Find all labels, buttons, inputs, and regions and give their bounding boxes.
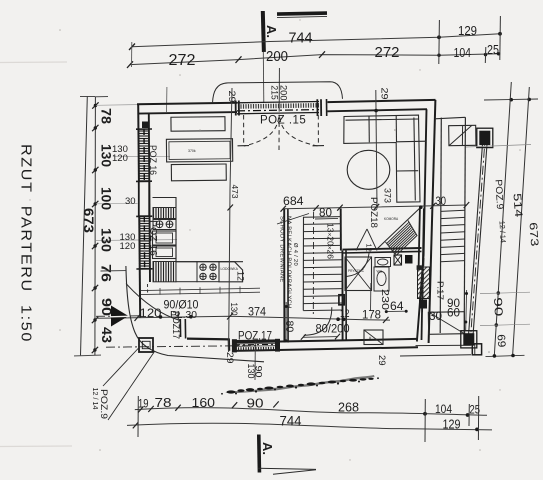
svg-text:69: 69 xyxy=(495,334,508,348)
bottom window POZ17 inner thin lines xyxy=(236,342,276,345)
svg-text:76: 76 xyxy=(99,264,114,283)
right wall outer line xyxy=(429,100,436,343)
svg-text:POZ.17: POZ.17 xyxy=(238,331,272,343)
ext stair top box divider xyxy=(461,125,463,145)
svg-text:272: 272 xyxy=(375,45,400,61)
left chain guide line to wall at y204 xyxy=(96,203,138,205)
svg-text:25: 25 xyxy=(487,42,499,57)
svg-text:90: 90 xyxy=(247,396,264,411)
bathroom top wall line a xyxy=(342,248,421,250)
chimney inner rect xyxy=(142,341,150,348)
svg-text:A.: A. xyxy=(264,25,279,38)
svg-text:POZ 16: POZ 16 xyxy=(148,145,158,175)
POZ9 top end box xyxy=(477,128,493,147)
POZ15 foot dash left xyxy=(238,145,250,147)
kitchen ribbed unit B xyxy=(153,262,176,282)
svg-text:NA BELKACH POLOKRAGLYCH: NA BELKACH POLOKRAGLYCH xyxy=(286,216,292,309)
POZ15 right post xyxy=(316,99,318,116)
left wall pier between windows xyxy=(139,181,149,216)
washing machine xyxy=(364,330,383,345)
bathroom door arc xyxy=(347,253,370,277)
interior dim line L0 lower xyxy=(141,292,260,294)
bottom window POZ17 left post xyxy=(232,339,237,352)
svg-text:744: 744 xyxy=(280,413,302,428)
svg-text:80: 80 xyxy=(319,208,332,220)
interior dim line 684 xyxy=(283,205,466,209)
bottom window POZ17 right post xyxy=(275,339,280,352)
top dimension row1 line (744|129) xyxy=(132,34,500,47)
flue square hatched xyxy=(394,255,402,265)
POZ9 beam dashdot center xyxy=(471,132,486,338)
bathroom top wall line b xyxy=(342,251,421,253)
svg-text:30: 30 xyxy=(429,311,442,323)
svg-text:160: 160 xyxy=(192,395,216,410)
left dim chain inner line xyxy=(94,97,97,356)
left chain guide line to wall at y170 xyxy=(113,155,170,157)
winder stairs hatch xyxy=(387,222,416,254)
left chain dots xyxy=(94,104,97,107)
right wall window dim vertical xyxy=(465,290,468,330)
stringer end box bottom xyxy=(472,344,481,355)
POZ9 top end box fill xyxy=(479,131,490,145)
svg-text:178: 178 xyxy=(362,307,381,321)
right dim line 514 xyxy=(494,82,511,356)
porch edge lines bottom right xyxy=(416,344,471,346)
svg-text:272: 272 xyxy=(169,52,196,69)
top guide vertical at x131.5 xyxy=(131,42,133,67)
top wall left outer line xyxy=(137,103,237,105)
right chains top guide line xyxy=(484,99,538,100)
left wall inner line xyxy=(149,113,150,282)
svg-text:473: 473 xyxy=(230,185,240,199)
bathroom vertical dim 230 xyxy=(370,283,372,311)
svg-text:104: 104 xyxy=(454,45,472,60)
svg-text:744: 744 xyxy=(289,30,313,47)
svg-text:120: 120 xyxy=(112,153,128,164)
top dimension row2 line (272|200|272|104|25) xyxy=(130,54,499,65)
svg-text:215: 215 xyxy=(269,85,280,99)
svg-text:90: 90 xyxy=(491,297,504,317)
section marker A top: thick vertical bar xyxy=(261,11,266,52)
row1 dot at 439 xyxy=(437,35,441,39)
left chain slash ticks xyxy=(92,102,98,108)
chimney dashdot axis horizontal xyxy=(106,346,256,348)
row1 left end tick xyxy=(129,44,135,51)
svg-text:673: 673 xyxy=(527,222,541,247)
kitchen 2-burner xyxy=(153,220,176,230)
left wall window2 hatch xyxy=(139,216,150,269)
interior dim line L0 (90/O10) upper xyxy=(141,288,260,290)
small dark rect near wall xyxy=(417,265,422,270)
right guide line y325 xyxy=(480,324,530,325)
svg-text:POZ .15: POZ .15 xyxy=(260,115,306,127)
sub dim line under 80 xyxy=(315,217,338,220)
kitchen counter outline xyxy=(153,198,244,262)
right guide line y293 xyxy=(480,292,530,293)
left chain top caps xyxy=(95,96,108,98)
section marker A bottom: thick vertical bar xyxy=(257,434,261,472)
stair enclosure left wall line a xyxy=(283,209,285,343)
window sill ticks window1 xyxy=(136,128,152,130)
porch door swing arc xyxy=(126,284,180,321)
svg-text:WC: WC xyxy=(377,270,383,274)
WC bowl xyxy=(374,267,389,291)
porch door leaf double line xyxy=(179,319,181,337)
paper fold line top-left xyxy=(0,61,67,64)
stairs top diagonal leader xyxy=(277,214,309,225)
ext stair stringer left xyxy=(440,118,441,333)
dark block under pier xyxy=(419,300,427,309)
L0 small ticks xyxy=(160,286,240,294)
ext stair top platform lines xyxy=(435,117,466,119)
svg-text:130: 130 xyxy=(228,303,239,316)
top wall right inner line xyxy=(328,109,428,111)
flue square solid black xyxy=(405,255,413,264)
POZ9 beam line b xyxy=(473,132,488,339)
svg-text:19: 19 xyxy=(138,399,149,411)
svg-text:80/200: 80/200 xyxy=(316,322,350,336)
winder stairs boundary diagonal xyxy=(378,207,422,249)
svg-text:12: 12 xyxy=(236,271,246,281)
right chains bottom cap xyxy=(486,355,525,356)
left dim chain outer line (673) xyxy=(81,97,88,356)
ext stair bottom landing diagonal xyxy=(429,312,465,334)
row2 dot at 498.5 xyxy=(497,52,500,55)
POZ15 left post xyxy=(235,101,237,116)
svg-text:514: 514 xyxy=(511,193,525,218)
interior dim line L1 long xyxy=(96,316,390,320)
bathroom left wall line a xyxy=(341,251,343,342)
left wall outer line xyxy=(138,104,140,318)
leader lines to POZ.9 label xyxy=(103,347,155,421)
top guide vertical at x485.5 xyxy=(484,47,487,63)
L1 dot at 191 xyxy=(189,315,193,319)
kitchen ribbed unit A xyxy=(153,208,176,219)
top wall right outer line xyxy=(328,100,436,102)
entrance arrow dashdot xyxy=(96,315,142,318)
ext stair top box diagonal xyxy=(450,126,472,146)
POZ15 center vertical line xyxy=(278,68,280,107)
svg-text:12: 12 xyxy=(365,244,374,252)
porch left stub line xyxy=(101,270,127,272)
dashdot through pier xyxy=(423,258,425,312)
interior vertical dim D1 x230 xyxy=(229,88,232,352)
section marker A bottom wedge lines xyxy=(258,468,316,474)
left wall window1 hatch xyxy=(139,129,150,181)
terrace rounded outline above top wall xyxy=(213,82,343,103)
kitchen 4-burner stove xyxy=(197,262,219,282)
svg-text:29: 29 xyxy=(376,355,387,366)
bottom wall upper line xyxy=(234,339,418,343)
POZ18 leader lines xyxy=(356,229,377,251)
svg-text:268: 268 xyxy=(338,400,359,414)
bottom dim rowB line xyxy=(127,423,492,430)
ext stair treads xyxy=(441,210,465,262)
row2 tick at 322 xyxy=(319,51,325,58)
ext stair stringer right xyxy=(464,117,465,333)
stair walk line dashdot xyxy=(312,212,314,316)
kitchen sink unit 1 xyxy=(153,231,177,245)
L1 dot at 344 xyxy=(342,318,346,322)
POZ15 foot dash right xyxy=(313,145,325,147)
stair right wall piece lower xyxy=(339,295,344,305)
svg-text:120: 120 xyxy=(140,306,162,320)
svg-text:130: 130 xyxy=(99,228,114,252)
dining rect R3 xyxy=(171,164,226,181)
POZ15 dashed leaf left xyxy=(243,115,245,146)
right dim line 673 xyxy=(513,87,530,355)
bottom window POZ17 top bar xyxy=(235,339,277,342)
svg-text:POZ17: POZ17 xyxy=(170,311,181,339)
dark block in corner pier xyxy=(142,122,148,129)
svg-text:100: 100 xyxy=(99,187,114,210)
kitchen sink unit 2 xyxy=(153,246,177,259)
dining table R2 inner border xyxy=(169,141,230,159)
bottom dim rowA line xyxy=(135,408,487,416)
POZ15 center dashed vertical xyxy=(278,107,280,152)
row2 dot at 485.5 xyxy=(484,53,487,56)
left wall window1 center dash xyxy=(143,129,145,181)
top wall left inner line xyxy=(138,112,237,114)
684 line ticks xyxy=(281,206,287,212)
left wall window2 center dash xyxy=(143,216,145,269)
row2 dot at 439 xyxy=(437,54,440,57)
svg-text:P.17: P.17 xyxy=(436,281,446,300)
entrance bay wall horizontal xyxy=(187,337,230,340)
top guide vertical at x500 xyxy=(499,16,502,60)
bottom wall lower line xyxy=(234,347,419,351)
ext stair top box xyxy=(449,125,476,145)
section marker A top: thick horizontal bar xyxy=(277,11,327,16)
svg-text:SCHODY DREWNIANE: SCHODY DREWNIANE xyxy=(279,216,285,283)
row2 tick at 238.5 xyxy=(236,56,242,63)
entrance arrow solid triangle xyxy=(111,306,129,327)
L1 slash at D1 crossing xyxy=(227,313,233,320)
dining rect R1 xyxy=(171,117,225,132)
svg-text:KOMORA: KOMORA xyxy=(384,217,399,221)
64 sub dim xyxy=(386,310,407,312)
chimney square xyxy=(139,338,153,352)
entrance bay wall corner vertical xyxy=(228,339,231,351)
winder diagonal end dot xyxy=(419,205,423,209)
svg-text:373: 373 xyxy=(383,188,393,203)
80/200 underline dim xyxy=(303,336,338,339)
stair treads xyxy=(303,217,342,311)
sofa outline xyxy=(344,115,427,202)
shower X diagonals xyxy=(345,257,372,291)
bathroom shower tray xyxy=(345,257,372,291)
stair right wall piece xyxy=(340,209,342,251)
top window band POZ15 top line xyxy=(237,102,319,103)
svg-text:129: 129 xyxy=(458,23,477,38)
ext stair bottom landing xyxy=(428,312,464,335)
svg-text:30: 30 xyxy=(125,196,136,207)
svg-text:60: 60 xyxy=(447,305,460,319)
right wall shaft divider line xyxy=(419,209,420,269)
bottom guide verticals xyxy=(137,396,139,437)
porch outer rounded curve xyxy=(126,266,264,362)
right wall inner line xyxy=(417,109,427,341)
svg-text:Ø 4 / 20: Ø 4 / 20 xyxy=(292,243,298,266)
D2 top dot xyxy=(374,109,378,113)
vertical dim D3 x286 with 80 xyxy=(285,302,287,342)
svg-text:129: 129 xyxy=(443,418,461,432)
svg-text:104: 104 xyxy=(435,402,452,416)
svg-text:64: 64 xyxy=(390,299,404,313)
POZ9 bottom end box xyxy=(461,331,477,348)
rowA dots right xyxy=(423,412,427,416)
svg-text:POZ.9: POZ.9 xyxy=(98,389,109,419)
left chain guide line to wall at y105 xyxy=(96,104,137,107)
svg-text:29: 29 xyxy=(379,88,390,100)
L1 dot at 140 xyxy=(159,315,163,319)
L1 dot at 338 xyxy=(336,317,340,321)
svg-text:684: 684 xyxy=(283,196,304,208)
POZ15 dashed leaf right xyxy=(317,115,319,146)
hall door 80/200 arc xyxy=(304,307,332,335)
rowB tick left xyxy=(133,422,138,428)
fridge polygon xyxy=(219,262,243,282)
top window band hatch xyxy=(237,103,319,109)
rowB dot right xyxy=(475,428,479,432)
stair enclosure left wall line b xyxy=(287,209,289,343)
svg-text:120: 120 xyxy=(120,241,136,252)
svg-text:78: 78 xyxy=(155,395,172,410)
bathroom left wall line b xyxy=(345,251,347,342)
faint speck bottom right xyxy=(488,351,490,353)
svg-text:130: 130 xyxy=(246,364,256,379)
bottom window POZ17 dashdot xyxy=(234,343,278,346)
kitchen bottom counter row xyxy=(176,262,197,282)
right chain dots xyxy=(493,354,497,358)
svg-text:43: 43 xyxy=(99,327,114,344)
svg-text:80: 80 xyxy=(284,321,296,333)
svg-text:200: 200 xyxy=(266,49,288,65)
row1 dot at 500 xyxy=(498,32,502,36)
paper fold line bottom-left xyxy=(0,445,72,448)
bottom window POZ17 hatch band xyxy=(235,347,276,351)
top guide vertical at x439 xyxy=(438,20,441,64)
washbasin xyxy=(375,258,391,267)
POZ15 dashed swing arc right xyxy=(280,118,318,147)
svg-text:370k: 370k xyxy=(188,149,196,153)
L1 left tick xyxy=(135,315,141,322)
D1 tick at 684 crossing xyxy=(228,205,234,211)
right guide line y147 xyxy=(466,145,531,148)
L1 right tick at wall xyxy=(383,317,389,323)
row2 tick left end xyxy=(127,61,133,68)
POZ9 bottom end box fill xyxy=(463,333,474,345)
left chain bottom caps xyxy=(88,354,101,356)
svg-text:POZ18: POZ18 xyxy=(368,197,379,228)
POZ9 beam line a xyxy=(468,132,483,339)
svg-text:RZUT PARTERU 1:50: RZUT PARTERU 1:50 xyxy=(18,144,35,343)
interior vertical dim D2 x376 xyxy=(376,90,377,208)
svg-text:29: 29 xyxy=(225,352,235,364)
stairs left edge xyxy=(302,217,304,311)
round table xyxy=(347,150,390,189)
winder stairs patch outline xyxy=(386,221,418,256)
POZ15 dashed swing arc left xyxy=(244,118,279,147)
scan smudge band xyxy=(221,375,379,395)
svg-text:78: 78 xyxy=(99,108,114,125)
svg-text:673: 673 xyxy=(81,208,96,234)
rowA ticks xyxy=(138,406,143,412)
svg-text:374: 374 xyxy=(248,305,266,319)
right wall hatched pier xyxy=(418,267,430,299)
top guide vertical at x166.8 xyxy=(166,87,168,112)
section line below top marker xyxy=(262,52,265,103)
svg-text:13×20×26: 13×20×26 xyxy=(326,223,336,259)
section marker A top: thin underline xyxy=(277,16,327,17)
top window band dashdot xyxy=(237,110,319,111)
svg-text:A.: A. xyxy=(260,442,275,455)
dining table R2 xyxy=(166,139,232,162)
top window band bottom line xyxy=(237,113,319,114)
